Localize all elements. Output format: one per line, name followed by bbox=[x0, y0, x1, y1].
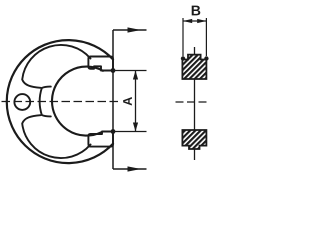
label A (rotated) bbox=[122, 95, 133, 108]
bore arc (inner opening) bbox=[52, 67, 103, 136]
junction dot, top tab bbox=[111, 68, 116, 73]
cutting plane vertical line bbox=[112, 30, 114, 169]
extension line, bottom bbox=[102, 131, 147, 133]
bore-seat land (stadium slot at left of bore) bbox=[40, 87, 51, 117]
extension line, top bbox=[101, 70, 147, 72]
bottom view-direction arrowhead bbox=[128, 166, 142, 171]
dimension line A bbox=[135, 71, 137, 132]
section vertical centerline bbox=[194, 47, 196, 160]
arrowhead A bottom bbox=[133, 123, 138, 132]
corner dot right bbox=[204, 56, 208, 60]
mounting hole bbox=[14, 94, 30, 110]
horizontal centerline (dashed) of ring view bbox=[2, 101, 134, 103]
corner dot left bbox=[181, 56, 185, 60]
label B bbox=[192, 6, 201, 16]
dimension B extension lines bbox=[183, 18, 206, 56]
ring outer rim arc bbox=[7, 40, 113, 163]
arrowhead A top bbox=[133, 71, 138, 80]
top cross-section (hatched, lug up) bbox=[182, 55, 206, 79]
rim inner edge, upper arc with S-transition bbox=[22, 45, 90, 88]
bottom cross-section (hatched, lug down) bbox=[182, 130, 206, 149]
arrowhead B left bbox=[183, 19, 192, 23]
top view-direction arrowhead bbox=[128, 27, 142, 32]
arrowhead B right bbox=[197, 19, 206, 23]
top clamp tab (with notch) bbox=[88, 57, 113, 71]
junction dot, bottom tab bbox=[111, 129, 116, 134]
section horizontal centerline (dashed) bbox=[176, 101, 209, 103]
dimension line B bbox=[183, 20, 206, 22]
top view-direction leader bbox=[113, 29, 147, 31]
bottom clamp tab (stepped edge) bbox=[88, 132, 113, 147]
bottom view-direction leader bbox=[113, 168, 147, 170]
rim inner edge, lower arc with S-transition bbox=[22, 115, 90, 158]
